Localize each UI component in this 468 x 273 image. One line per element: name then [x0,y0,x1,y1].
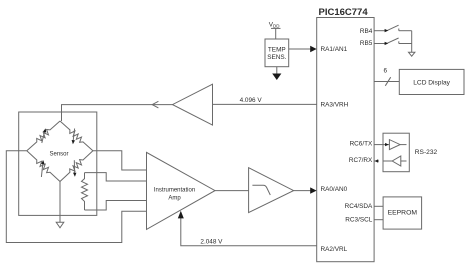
svg-text:Instrumentation: Instrumentation [154,187,195,193]
wire RC4/SDA [374,205,383,207]
svg-text:RB5: RB5 [360,40,373,47]
wire RC7/RX from RS-232 [383,160,392,162]
resistor RG gain resistor [82,173,88,210]
switch S2 lever RB5 [387,38,398,43]
svg-text:LCD Display: LCD Display [413,80,450,87]
wire TEMP SENS to ground [276,67,278,74]
ground arrow below bridge [56,222,64,228]
wire switch RB4 [374,30,385,32]
switch S1 lever RB4 [387,25,398,30]
ground arrow below TEMP SENS [272,74,281,81]
arrowhead TX direction [385,143,389,146]
wire in-amp output to filter [215,190,249,192]
wire RC6/TX to RS-232 [374,144,389,146]
wire buffer output to bridge top [62,105,173,121]
svg-text:Sensor: Sensor [49,151,68,157]
wire RA3/VRH 4.096V reference [213,103,317,105]
component EEPROM [383,197,422,229]
component RS-232 transceiver box [383,133,409,172]
svg-text:SENS.: SENS. [267,54,286,61]
gauge arrow top-right [73,129,74,141]
wire 2.048V reference into in-amp [181,216,317,246]
svg-text:EEPROM: EEPROM [388,210,418,217]
svg-text:RA3/VRH: RA3/VRH [321,101,349,108]
op-amp U3 instrumentation amp [147,152,216,229]
sensor bridge enclosure box [19,112,97,215]
svg-text:RC3/SCL: RC3/SCL [345,216,372,223]
wire RG top to in-amp input 2 [85,173,147,181]
svg-text:RC6/TX: RC6/TX [350,141,373,148]
low-pass response curve inside filter [252,185,270,195]
wire switch RB5 [374,43,385,45]
wire filter output to RA0/AN0 [294,190,311,192]
bridge strain-gauge resistor bottom-left [27,151,60,182]
svg-text:6: 6 [384,68,388,75]
ground arrow switches [409,52,415,56]
wire bridge bottom to ground [59,182,61,223]
svg-text:RB4: RB4 [360,28,373,35]
gauge arrow bottom-left [41,164,42,178]
component TEMP SENS [265,39,289,67]
op-amp U2 reference buffer (points left) [173,84,213,125]
arrowhead into pin RA0/AN0 [310,187,316,193]
wire bridge left node around bottom to in-amp input 4 [6,151,146,243]
svg-text:RA0/AN0: RA0/AN0 [321,186,348,193]
svg-text:4.096 V: 4.096 V [240,97,263,104]
svg-text:RC7/RX: RC7/RX [349,157,373,164]
svg-text:RA2/VRL: RA2/VRL [321,246,348,253]
bus slash mark [385,77,390,86]
svg-text:RA1/AN1: RA1/AN1 [321,46,348,53]
wire RG bottom to in-amp input 3 [85,201,147,211]
bridge strain-gauge resistor bottom-right [60,151,93,182]
wire VDD to TEMP SENS [275,28,277,39]
arrowhead into pin RA1/AN1 [310,46,316,52]
wire bridge right node to in-amp input 1 [93,151,147,170]
component LCD Display [399,69,464,94]
open arrowhead on wire pointing left [152,101,158,108]
power symbol VDD bar [271,27,281,29]
op-amp U4 low-pass filter stage [249,168,294,213]
svg-text:2.048 V: 2.048 V [200,238,223,245]
gauge arrow bottom-right [73,160,75,173]
svg-text:PIC16C774: PIC16C774 [319,7,369,18]
arrowhead RX direction [375,159,379,162]
bridge strain-gauge resistor top-right [60,121,93,151]
wire RC3/SCL [374,219,383,221]
bus wire to LCD display (6 lines) [374,81,399,83]
buffer TX triangle [389,140,400,150]
IC U1 PIC16C774 body [317,18,374,262]
wire switches common to ground [411,31,413,53]
arrowhead 2.048V into amp [178,211,184,219]
svg-text:RS-232: RS-232 [415,149,438,156]
bridge strain-gauge resistor top-left [27,121,60,151]
svg-text:TEMP: TEMP [268,47,286,54]
svg-text:RC4/SDA: RC4/SDA [345,203,373,210]
svg-text:VDD: VDD [269,21,281,28]
wire TEMP SENS output to RA1/AN1 [289,48,311,50]
svg-text:Amp: Amp [168,196,181,202]
gauge arrow top-left [42,132,45,144]
buffer RX triangle [392,156,401,166]
